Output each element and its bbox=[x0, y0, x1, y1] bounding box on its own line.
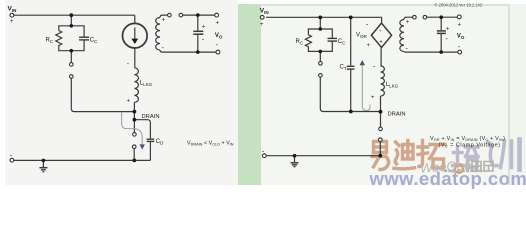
svg-text:+: + bbox=[406, 20, 410, 26]
svg-text:CT: CT bbox=[340, 65, 347, 72]
svg-text:-: - bbox=[379, 28, 382, 35]
svg-text:RC: RC bbox=[296, 39, 304, 46]
svg-text:+: + bbox=[379, 40, 383, 46]
svg-text:VIN: VIN bbox=[260, 8, 269, 16]
svg-text:VO: VO bbox=[215, 33, 223, 40]
svg-text:-: - bbox=[162, 45, 165, 52]
svg-text:LLKG: LLKG bbox=[140, 81, 153, 88]
svg-text:DRAIN: DRAIN bbox=[388, 112, 406, 118]
svg-text:+: + bbox=[458, 23, 462, 29]
svg-text:-: - bbox=[216, 42, 219, 49]
svg-text:+: + bbox=[202, 25, 206, 31]
svg-text:+: + bbox=[446, 27, 450, 33]
svg-text:+: + bbox=[10, 19, 14, 25]
svg-text:RC: RC bbox=[46, 38, 54, 45]
svg-text:-: - bbox=[127, 61, 130, 68]
svg-text:VDRAIN < VCLO + VIN: VDRAIN < VCLO + VIN bbox=[187, 141, 234, 147]
svg-text:-: - bbox=[446, 36, 449, 43]
svg-text:+: + bbox=[216, 21, 220, 27]
svg-text:CC: CC bbox=[338, 39, 346, 46]
svg-text:+: + bbox=[371, 95, 375, 101]
svg-text:(VC = Clamp Voltage): (VC = Clamp Voltage) bbox=[439, 142, 501, 148]
svg-text:VO: VO bbox=[457, 34, 465, 41]
svg-text:CD: CD bbox=[156, 139, 164, 146]
svg-text:LLKG: LLKG bbox=[386, 82, 399, 89]
svg-text:VOR: VOR bbox=[356, 33, 368, 40]
svg-text:+: + bbox=[260, 22, 264, 28]
svg-text:+: + bbox=[367, 43, 371, 49]
svg-text:-: - bbox=[366, 22, 369, 29]
svg-text:+: + bbox=[127, 99, 131, 105]
svg-text:DRAIN: DRAIN bbox=[142, 114, 160, 120]
svg-text:CC: CC bbox=[90, 38, 98, 45]
svg-text:VOR + VIN = VDRAIN (VC + VIN): VOR + VIN = VDRAIN (VC + VIN) bbox=[430, 136, 505, 142]
svg-text:VIN: VIN bbox=[8, 6, 17, 14]
svg-text:-: - bbox=[202, 37, 205, 44]
svg-text:-: - bbox=[373, 64, 376, 71]
svg-text:+: + bbox=[162, 18, 166, 24]
svg-text:-: - bbox=[406, 46, 409, 53]
